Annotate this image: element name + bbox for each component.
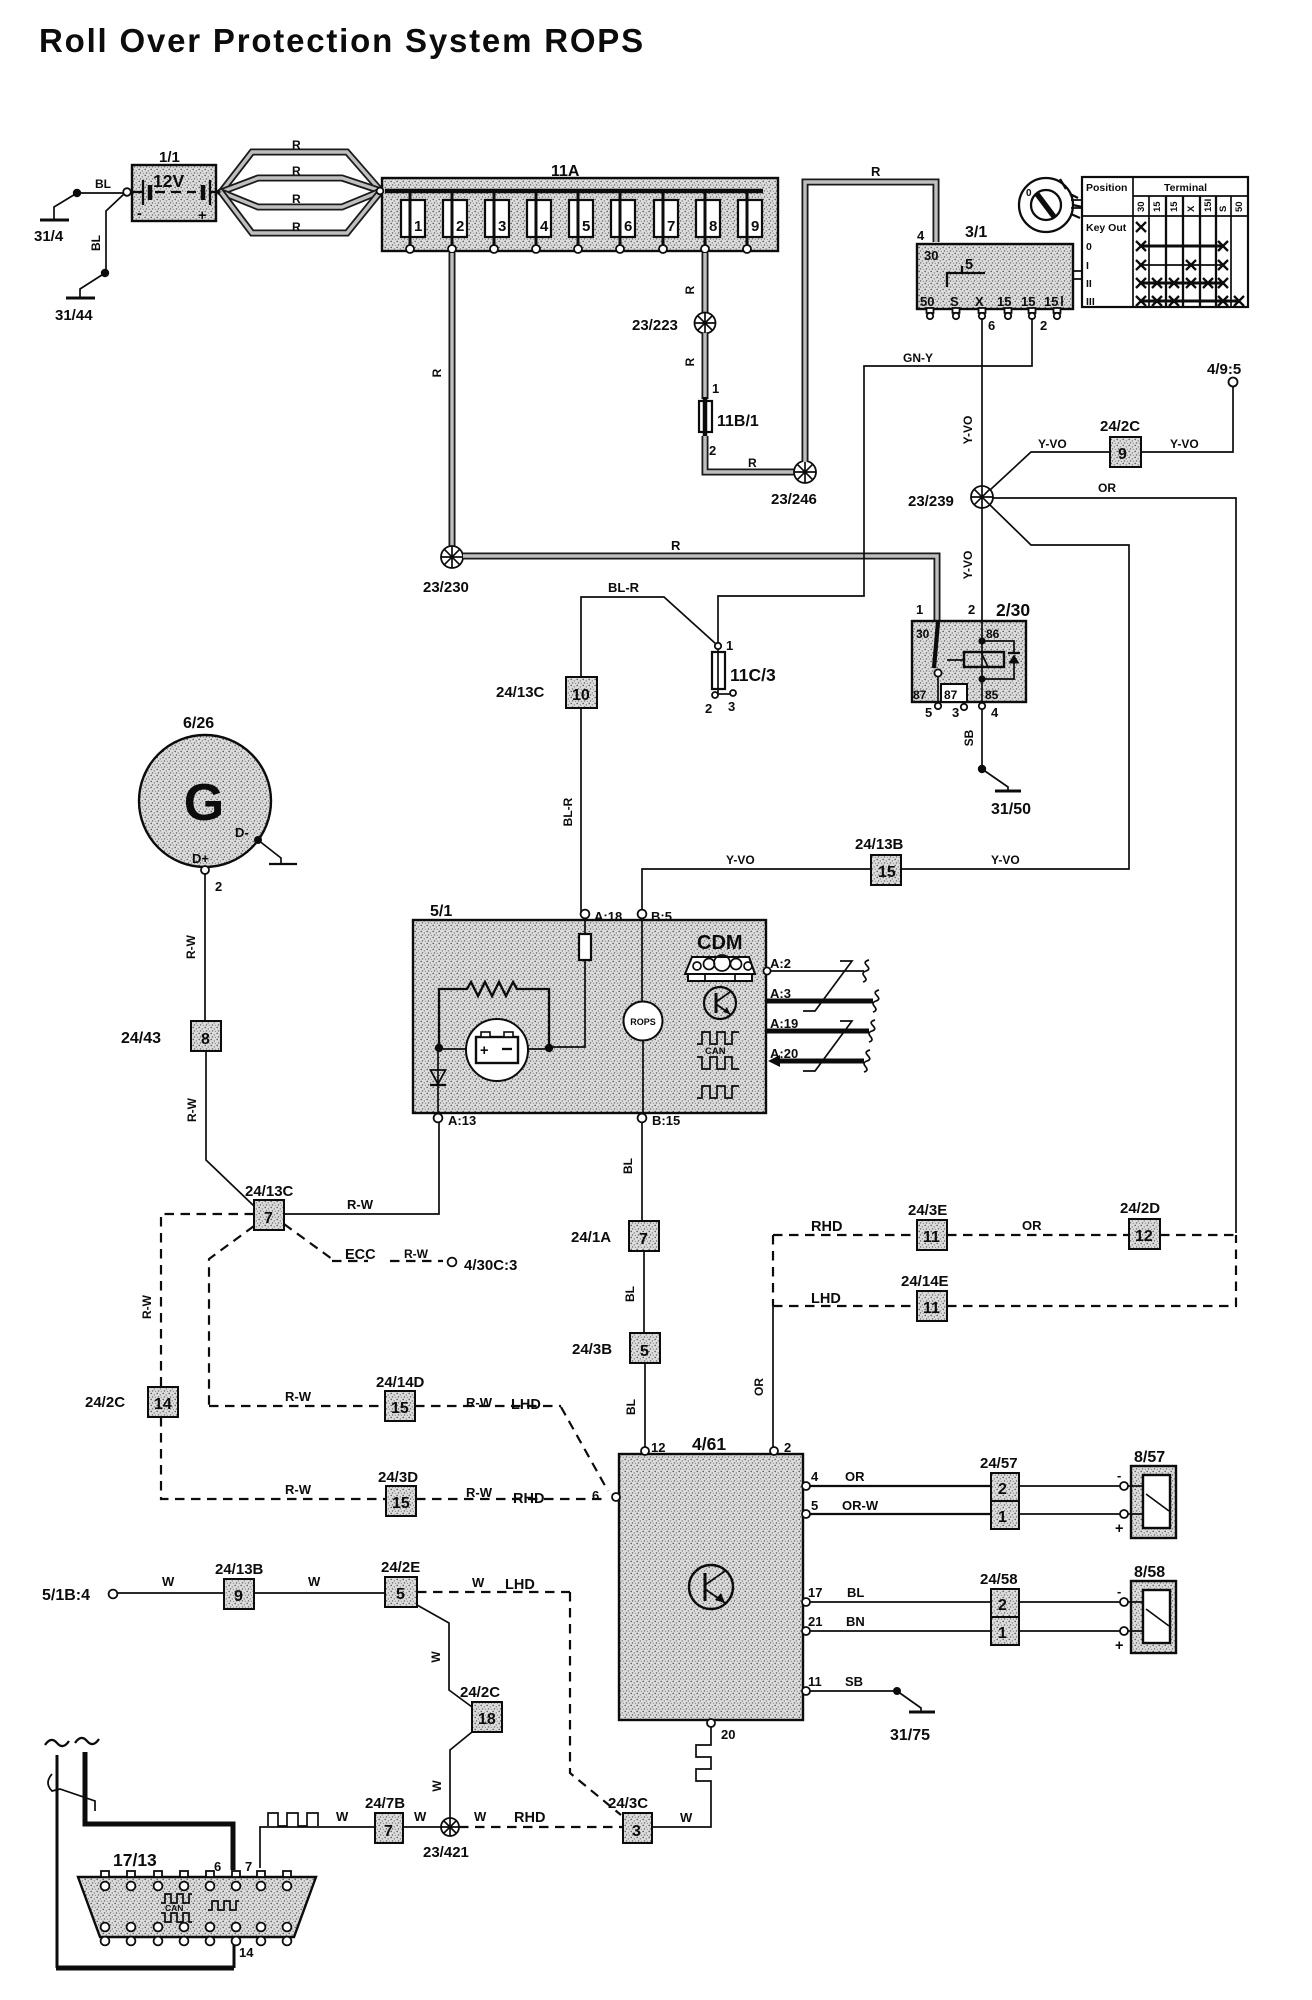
wire OR to 4/61 pin 2	[752, 1235, 773, 1447]
splice 23/223	[632, 313, 716, 335]
svg-text:24/1A: 24/1A	[571, 1229, 611, 1246]
wire BL-R 11C/3 to 24/13C	[581, 580, 716, 677]
svg-text:-: -	[1117, 1584, 1121, 1599]
svg-text:8: 8	[709, 218, 717, 235]
svg-text:5: 5	[811, 1498, 818, 1513]
internal fuse 5/1	[553, 918, 591, 1047]
svg-text:R-W: R-W	[140, 1294, 154, 1319]
wire R harness branch 3	[221, 191, 381, 207]
svg-text:ECC: ECC	[345, 1247, 376, 1263]
connector 24/58 (2 / 1)	[980, 1571, 1019, 1645]
svg-text:W: W	[680, 1810, 693, 1825]
svg-text:9: 9	[234, 1588, 243, 1605]
svg-text:2: 2	[705, 701, 712, 716]
svg-text:W: W	[414, 1809, 427, 1824]
svg-text:R: R	[683, 285, 697, 294]
svg-text:24/3B: 24/3B	[572, 1341, 612, 1358]
svg-text:23/421: 23/421	[423, 1844, 469, 1861]
title	[39, 22, 645, 59]
svg-text:9: 9	[1118, 446, 1127, 463]
svg-text:Y-VO: Y-VO	[961, 416, 975, 445]
connector 24/7B (7)	[365, 1795, 405, 1843]
svg-text:15I: 15I	[1203, 199, 1214, 212]
ROPS circle	[624, 918, 663, 1113]
connector 24/14D (15)	[376, 1374, 425, 1421]
wire BL 24/1A to 24/3B	[623, 1251, 644, 1333]
wire R bus splice to relay	[463, 538, 937, 620]
svg-text:24/2C: 24/2C	[1100, 418, 1140, 435]
svg-text:2: 2	[215, 879, 222, 894]
svg-text:4: 4	[991, 705, 999, 720]
svg-text:R: R	[292, 220, 301, 234]
svg-text:2/30: 2/30	[996, 600, 1030, 620]
svg-text:III: III	[1086, 296, 1095, 308]
svg-text:11: 11	[808, 1674, 822, 1689]
svg-text:86: 86	[986, 627, 1000, 641]
4/61 transistor icon	[689, 1565, 733, 1609]
wire R harness branch 2	[221, 164, 381, 192]
stub switch to table	[1073, 271, 1082, 279]
svg-text:4: 4	[811, 1469, 819, 1484]
svg-text:7: 7	[667, 218, 675, 235]
svg-text:R: R	[683, 357, 697, 366]
fuse 9	[738, 193, 762, 253]
svg-text:87: 87	[913, 688, 927, 702]
svg-text:4/9:5: 4/9:5	[1207, 361, 1241, 378]
svg-text:LHD: LHD	[511, 1397, 541, 1413]
svg-text:BN: BN	[846, 1614, 865, 1629]
terminal 4/30C:3	[448, 1257, 518, 1274]
svg-text:5/1B:4: 5/1B:4	[42, 1587, 90, 1604]
svg-text:17/13: 17/13	[113, 1850, 157, 1870]
wire R harness branch 1	[221, 138, 381, 192]
wire W 24/2C(18) to 23/421	[430, 1732, 472, 1818]
svg-text:6: 6	[592, 1488, 599, 1503]
svg-text:W: W	[430, 1780, 444, 1792]
wire OR dashed LHD line	[773, 1235, 1236, 1307]
svg-text:Position: Position	[1086, 182, 1127, 194]
svg-text:7: 7	[245, 1859, 252, 1874]
svg-text:14: 14	[239, 1945, 254, 1960]
fuse 6	[611, 193, 635, 253]
4/61 pin 12	[641, 1440, 665, 1455]
ground 31/4	[34, 189, 81, 245]
svg-text:B:5: B:5	[651, 909, 672, 924]
svg-text:12: 12	[651, 1440, 665, 1455]
svg-text:5: 5	[396, 1586, 405, 1603]
key position table	[1082, 177, 1248, 308]
wire W 17/13 pin 7 to 24/7B	[260, 1809, 375, 1868]
connector 24/2C (14)	[85, 1387, 178, 1417]
svg-text:5: 5	[582, 218, 590, 235]
svg-text:W: W	[474, 1809, 487, 1824]
wire R fuse 8 down	[683, 253, 705, 313]
internal battery 5/1	[435, 1019, 553, 1081]
svg-text:ROPS: ROPS	[630, 1017, 656, 1027]
svg-text:+: +	[1115, 1638, 1123, 1654]
wire BL B:15 to 24/1A	[621, 1122, 642, 1221]
svg-text:3/1: 3/1	[965, 224, 987, 241]
ground 31/50	[991, 791, 1031, 818]
connector 24/1A (7)	[571, 1221, 659, 1251]
terminal 5/1B:4	[42, 1587, 117, 1604]
svg-text:1: 1	[726, 638, 733, 653]
wire Y-VO 24/13B to B:5	[642, 853, 871, 912]
generator 6/26	[139, 715, 271, 867]
connector 24/13B (15)	[855, 836, 904, 885]
svg-text:15: 15	[392, 1495, 410, 1512]
internal diode 5/1	[430, 1052, 446, 1113]
17/13 pin labels	[214, 1859, 254, 1960]
relay coil	[964, 621, 1004, 702]
fuse box 11A	[377, 163, 778, 251]
wire OR dashed RHD right line	[773, 1218, 1236, 1235]
wire Y-VO pin6 down to relay pin 2	[961, 318, 982, 620]
svg-text:30: 30	[924, 248, 938, 263]
4/61 pin 17 wire BL to 24/58	[802, 1585, 991, 1606]
svg-text:24/13B: 24/13B	[855, 836, 904, 853]
fuse 3	[485, 193, 509, 253]
wires 24/58 to lamp 8/58	[1019, 1602, 1120, 1631]
svg-text:BL: BL	[623, 1286, 637, 1302]
generator D- ground	[235, 825, 297, 864]
svg-text:CAN: CAN	[165, 1903, 183, 1913]
relay pin 5	[925, 703, 941, 720]
lamp 8/58	[1115, 1564, 1176, 1654]
svg-text:24/13C: 24/13C	[245, 1183, 294, 1200]
CDM label	[697, 932, 743, 954]
svg-text:BL: BL	[89, 235, 103, 251]
splice 23/239	[908, 486, 993, 510]
wire R-W dashed 24/2C(14) to RHD line	[161, 1417, 386, 1499]
wire R-W 24/13C to A:13	[284, 1122, 439, 1214]
svg-text:23/223: 23/223	[632, 317, 678, 334]
wire Y-VO splice down-right to 24/13B line	[901, 505, 1129, 869]
svg-text:24/43: 24/43	[121, 1030, 161, 1047]
SRS module 5/1	[413, 903, 766, 1113]
svg-text:2: 2	[709, 443, 716, 458]
svg-text:24/7B: 24/7B	[365, 1795, 405, 1812]
svg-text:85: 85	[985, 688, 999, 702]
svg-text:31/4: 31/4	[34, 228, 64, 245]
svg-text:1: 1	[998, 1509, 1007, 1526]
svg-text:OR: OR	[752, 1378, 766, 1396]
twisted pair mark A:2/A:3	[803, 961, 852, 1011]
svg-text:24/2C: 24/2C	[460, 1684, 500, 1701]
svg-text:23/230: 23/230	[423, 579, 469, 596]
internal resistor 5/1	[439, 982, 549, 1044]
svg-text:BL: BL	[624, 1399, 638, 1415]
fuse 2	[443, 193, 467, 253]
connector 24/3B (5)	[572, 1333, 660, 1363]
svg-text:W: W	[472, 1575, 485, 1590]
svg-text:1: 1	[712, 381, 719, 396]
connector 24/14E (11)	[901, 1273, 949, 1321]
svg-text:II: II	[1086, 278, 1092, 290]
connector 24/13B (9)	[215, 1561, 264, 1609]
wire SB relay to ground 31/50	[962, 709, 1008, 790]
svg-text:1: 1	[998, 1625, 1007, 1642]
svg-text:11B/1: 11B/1	[717, 413, 759, 430]
connector 24/57 (2 / 1)	[980, 1455, 1019, 1529]
svg-text:2: 2	[998, 1597, 1007, 1614]
svg-text:RHD: RHD	[513, 1491, 544, 1507]
svg-text:5/1: 5/1	[430, 903, 452, 920]
svg-text:20: 20	[721, 1727, 735, 1742]
connector 24/3D (15)	[378, 1469, 418, 1516]
svg-text:6: 6	[214, 1859, 221, 1874]
svg-text:15: 15	[1044, 294, 1058, 309]
svg-text:2: 2	[784, 1440, 791, 1455]
svg-text:3: 3	[498, 218, 506, 235]
svg-text:24/13B: 24/13B	[215, 1561, 264, 1578]
wire W 24/13B to 24/2E	[254, 1574, 385, 1593]
switch pin 50	[927, 308, 934, 319]
svg-text:GN-Y: GN-Y	[903, 351, 933, 365]
connector 24/13C (7)	[245, 1183, 294, 1230]
wire to 17/13 pin 14	[45, 1740, 234, 1968]
svg-text:Roll Over Protection System RO: Roll Over Protection System ROPS	[39, 22, 645, 59]
relay white 87 box	[941, 684, 967, 702]
svg-text:1/1: 1/1	[159, 149, 180, 166]
svg-text:R-W: R-W	[285, 1389, 312, 1404]
svg-text:OR: OR	[1022, 1218, 1042, 1233]
svg-text:A:18: A:18	[594, 909, 622, 924]
lamp 8/57	[1115, 1449, 1176, 1538]
svg-text:5: 5	[640, 1343, 649, 1360]
svg-text:BL-R: BL-R	[561, 797, 575, 826]
wire W dashed RHD 23/421 to 24/3C	[459, 1809, 623, 1827]
wire break stub	[48, 1774, 95, 1811]
stub key to table	[1071, 200, 1082, 208]
svg-text:8: 8	[201, 1031, 210, 1048]
svg-text:0: 0	[1086, 241, 1092, 253]
svg-text:A:2: A:2	[770, 956, 791, 971]
control module 4/61	[619, 1434, 803, 1720]
4/61 pin 11 wire SB	[802, 1674, 921, 1711]
svg-text:11: 11	[923, 1300, 940, 1317]
ground 31/44	[55, 194, 124, 324]
svg-text:OR: OR	[845, 1469, 865, 1484]
svg-text:6: 6	[624, 218, 632, 235]
svg-text:2: 2	[1040, 318, 1047, 333]
switch pin X (6)	[979, 308, 996, 333]
4/61 pin 21 wire BN to 24/58	[802, 1614, 991, 1635]
svg-text:3: 3	[952, 705, 959, 720]
splice 23/246	[771, 461, 817, 508]
svg-text:-: -	[1117, 1468, 1121, 1483]
svg-text:OR-W: OR-W	[842, 1498, 879, 1513]
svg-text:7: 7	[639, 1231, 648, 1248]
svg-text:21: 21	[808, 1614, 822, 1629]
svg-text:4/61: 4/61	[692, 1434, 726, 1454]
svg-text:12: 12	[1135, 1228, 1153, 1245]
connector 24/2E (5)	[381, 1559, 420, 1607]
svg-text:R: R	[871, 164, 881, 179]
svg-text:4: 4	[540, 218, 549, 235]
wire R fuse 2 down	[430, 253, 452, 546]
twisted pair mark A:19/A:20	[803, 1021, 852, 1071]
ground 31/75	[890, 1712, 935, 1744]
svg-text:SB: SB	[845, 1674, 863, 1689]
4/61 pin 2	[770, 1440, 791, 1455]
svg-text:1: 1	[916, 602, 923, 617]
thick wire to 17/13 pin 6	[75, 1738, 233, 1870]
svg-text:Terminal: Terminal	[1164, 182, 1207, 194]
svg-text:Y-VO: Y-VO	[991, 853, 1020, 867]
wire W 5/1B:4 to 24/13B	[117, 1574, 224, 1593]
svg-text:BL: BL	[95, 177, 111, 191]
connector 24/3C (3)	[608, 1795, 693, 1843]
data link connector 17/13	[78, 1850, 316, 1937]
svg-text:+: +	[480, 1043, 488, 1059]
svg-text:W: W	[336, 1809, 349, 1824]
relay 2/30	[912, 600, 1030, 702]
connector 24/2C (9)	[1100, 418, 1141, 467]
svg-text:RHD: RHD	[514, 1810, 545, 1826]
battery 1/1	[123, 149, 223, 224]
svg-text:15: 15	[1152, 201, 1163, 212]
svg-text:30: 30	[916, 627, 930, 641]
wire R-W D+ to 24/43	[184, 874, 205, 1021]
svg-text:W: W	[429, 1651, 443, 1663]
svg-text:S: S	[950, 294, 959, 309]
svg-text:24/3D: 24/3D	[378, 1469, 418, 1486]
svg-text:3: 3	[728, 699, 735, 714]
wire BL 24/3B to 4/61 pin 12	[624, 1363, 645, 1447]
svg-text:R: R	[748, 456, 757, 470]
svg-text:15: 15	[1169, 201, 1180, 212]
wire W 24/7B to 23/421	[403, 1809, 441, 1827]
fuse 1	[401, 193, 425, 253]
relay contact 30-87	[934, 622, 964, 703]
connector 24/43 (8)	[121, 1021, 221, 1051]
pin A:13	[434, 1113, 477, 1128]
svg-text:SB: SB	[962, 729, 976, 746]
svg-text:A:13: A:13	[448, 1113, 476, 1128]
svg-text:31/75: 31/75	[890, 1727, 930, 1744]
svg-text:-: -	[137, 206, 142, 222]
svg-text:D+: D+	[192, 851, 209, 866]
wire R-W dashed LHD line	[209, 1389, 385, 1406]
svg-text:+: +	[198, 208, 206, 224]
svg-text:W: W	[308, 1574, 321, 1589]
svg-text:24/14D: 24/14D	[376, 1374, 425, 1391]
pin B:15	[638, 1113, 681, 1128]
wire R-W dashed 24/13C to 24/2C(14)	[140, 1214, 254, 1387]
17/13 bottom pins	[101, 1923, 292, 1946]
pin B:5	[638, 909, 672, 924]
svg-text:2: 2	[968, 602, 975, 617]
svg-text:1: 1	[414, 218, 422, 235]
svg-text:R-W: R-W	[404, 1247, 429, 1261]
svg-text:24/3E: 24/3E	[908, 1202, 947, 1219]
svg-text:Y-VO: Y-VO	[726, 853, 755, 867]
wire R 11B/1 to splice 23/246	[705, 436, 794, 472]
wires 24/57 to lamp 8/57	[1019, 1486, 1120, 1514]
svg-text:24/14E: 24/14E	[901, 1273, 949, 1290]
relay pin 3	[952, 702, 967, 720]
svg-text:31/50: 31/50	[991, 801, 1031, 818]
svg-text:CAN: CAN	[705, 1046, 726, 1057]
svg-text:G: G	[184, 774, 224, 832]
svg-text:6: 6	[988, 318, 995, 333]
CAN square waves	[697, 1032, 739, 1098]
svg-text:4/30C:3: 4/30C:3	[464, 1257, 517, 1274]
svg-text:RHD: RHD	[811, 1219, 842, 1235]
relay diode	[982, 641, 1020, 679]
svg-text:Y-VO: Y-VO	[1170, 437, 1199, 451]
svg-text:15: 15	[1021, 294, 1035, 309]
svg-text:9: 9	[751, 218, 759, 235]
svg-text:18: 18	[478, 1711, 496, 1728]
svg-text:BL-R: BL-R	[608, 580, 640, 595]
wire Y-VO 24/2C to 4/9:5	[1141, 387, 1233, 452]
svg-text:R: R	[292, 138, 301, 152]
svg-text:LHD: LHD	[811, 1291, 841, 1307]
svg-text:R: R	[292, 164, 301, 178]
svg-text:R: R	[430, 368, 444, 377]
svg-text:24/13C: 24/13C	[496, 684, 545, 701]
svg-text:12V: 12V	[153, 171, 184, 191]
svg-text:7: 7	[384, 1823, 393, 1840]
svg-text:4: 4	[917, 228, 925, 243]
svg-text:X: X	[1186, 205, 1197, 212]
svg-text:R-W: R-W	[466, 1485, 493, 1500]
pin A:19 wire	[766, 1016, 875, 1042]
CDM connector icon	[685, 955, 755, 981]
svg-text:8/57: 8/57	[1134, 1449, 1165, 1466]
svg-text:14: 14	[154, 1396, 172, 1413]
wire BL-R 24/13C to A:18	[561, 708, 581, 912]
CDM transistor icon	[704, 987, 736, 1019]
svg-text:I: I	[1086, 260, 1089, 272]
svg-text:Key Out: Key Out	[1086, 222, 1127, 234]
relay pin 4	[979, 703, 999, 720]
generator D+ pin 2	[192, 851, 222, 894]
svg-text:R-W: R-W	[466, 1395, 493, 1410]
svg-text:3: 3	[632, 1823, 641, 1840]
svg-text:S: S	[1218, 206, 1229, 212]
svg-text:CDM: CDM	[697, 932, 743, 954]
fuse 7	[654, 193, 678, 253]
svg-text:BL: BL	[621, 1158, 635, 1174]
splice 23/421	[423, 1818, 469, 1861]
svg-text:15: 15	[878, 864, 896, 881]
svg-text:Y-VO: Y-VO	[1038, 437, 1067, 451]
terminal 4/9:5	[1207, 361, 1241, 387]
connector 24/2C (18)	[460, 1684, 502, 1732]
svg-text:R-W: R-W	[285, 1482, 312, 1497]
4/61 pin 4 wire OR to 24/57	[802, 1469, 991, 1490]
svg-text:7: 7	[264, 1210, 273, 1227]
svg-text:23/246: 23/246	[771, 491, 817, 508]
svg-text:0: 0	[1026, 188, 1032, 199]
svg-text:B:15: B:15	[652, 1113, 680, 1128]
switch pin 15a	[1005, 308, 1012, 319]
svg-text:23/239: 23/239	[908, 493, 954, 510]
wire R splice to fuse 11B/1	[683, 333, 719, 399]
svg-text:R-W: R-W	[347, 1197, 374, 1212]
svg-text:24/57: 24/57	[980, 1455, 1018, 1472]
svg-text:5: 5	[925, 705, 932, 720]
svg-text:2: 2	[998, 1481, 1007, 1498]
switch pin 15c	[1054, 308, 1061, 319]
svg-text:2: 2	[456, 218, 464, 235]
svg-text:BL: BL	[847, 1585, 864, 1600]
wire W 24/2E to 24/2C(18)	[417, 1605, 472, 1707]
wire W dashed LHD from 24/2E	[417, 1575, 570, 1593]
